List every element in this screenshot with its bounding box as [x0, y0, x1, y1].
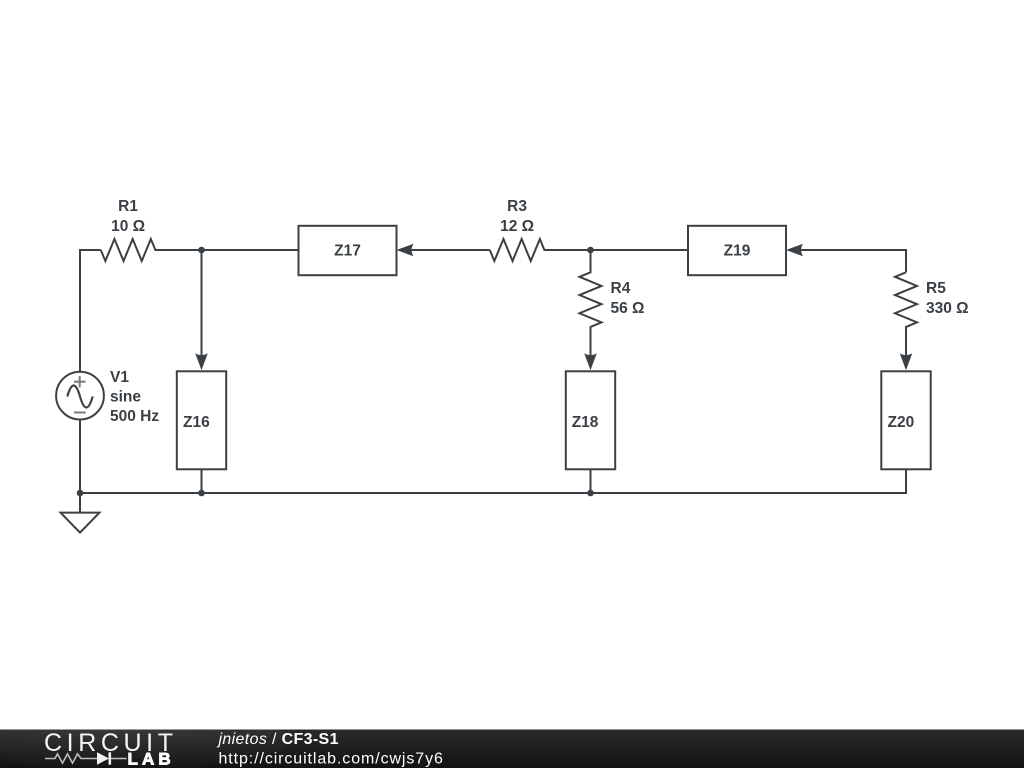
svg-text:56 Ω: 56 Ω [611, 300, 645, 317]
svg-text:R1: R1 [118, 198, 138, 215]
svg-text:500 Hz: 500 Hz [110, 408, 159, 425]
svg-text:R4: R4 [611, 280, 631, 297]
svg-text:330 Ω: 330 Ω [926, 300, 969, 317]
svg-text:12 Ω: 12 Ω [500, 218, 534, 235]
svg-text:V1: V1 [110, 369, 129, 386]
svg-text:Z19: Z19 [724, 243, 751, 260]
svg-text:Z18: Z18 [572, 414, 599, 431]
svg-text:Z17: Z17 [334, 243, 361, 260]
svg-text:sine: sine [110, 389, 141, 406]
svg-text:LAB: LAB [128, 750, 175, 768]
svg-text:R3: R3 [507, 198, 527, 215]
svg-text:http://circuitlab.com/cwjs7y6: http://circuitlab.com/cwjs7y6 [219, 750, 444, 767]
svg-text:Z20: Z20 [888, 414, 915, 431]
svg-text:Z16: Z16 [183, 414, 210, 431]
svg-text:jnietos / CF3-S1: jnietos / CF3-S1 [217, 731, 339, 748]
svg-text:R5: R5 [926, 280, 946, 297]
svg-text:10 Ω: 10 Ω [111, 218, 145, 235]
